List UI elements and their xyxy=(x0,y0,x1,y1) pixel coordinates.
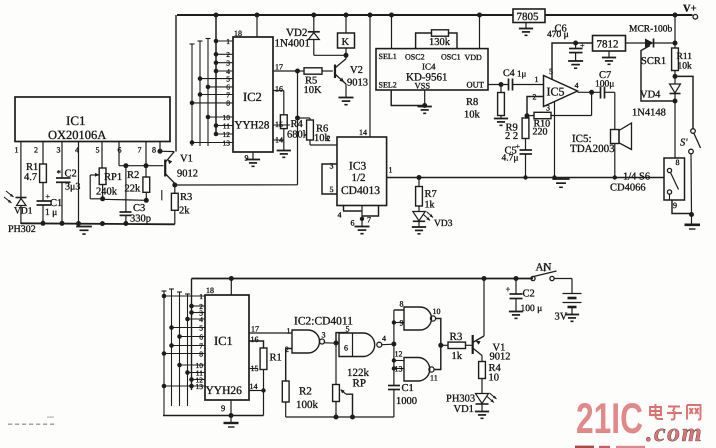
ground VD1 bottom xyxy=(475,412,489,419)
watermark dianziwang xyxy=(650,404,701,420)
wire rail junction dots xyxy=(214,13,678,18)
svg-text:18: 18 xyxy=(206,286,214,295)
svg-text:7805: 7805 xyxy=(517,11,540,23)
svg-text:R2: R2 xyxy=(299,386,312,398)
svg-text:3: 3 xyxy=(330,162,334,171)
op-amp IC4 KD-9561 xyxy=(376,49,488,91)
wire gate outputs to R3 xyxy=(434,319,443,370)
resistor R11 10k xyxy=(672,43,693,79)
resistor R7 1k xyxy=(416,178,437,212)
op-amp IC3 CD4013 xyxy=(337,137,387,206)
op-amp IC2 YYH28 xyxy=(233,37,273,152)
wire gate A pin2 xyxy=(286,349,292,382)
gate B CD4011 xyxy=(339,325,386,357)
svg-text:1N4001: 1N4001 xyxy=(275,38,310,50)
svg-text:1: 1 xyxy=(199,292,203,301)
svg-text:11: 11 xyxy=(430,374,438,383)
svg-text:SEL1: SEL1 xyxy=(379,52,397,61)
svg-text:8: 8 xyxy=(199,349,203,358)
svg-text:R4: R4 xyxy=(291,119,304,130)
terminal V+ xyxy=(683,4,698,20)
wire IC5 pin3 ground xyxy=(554,102,556,178)
svg-text:R11: R11 xyxy=(677,52,693,62)
svg-text:PH303: PH303 xyxy=(446,394,475,405)
pin labels IC1 1-8 xyxy=(15,146,157,155)
wire bus line A xyxy=(190,44,195,146)
resistor R1 (bottom) xyxy=(249,341,282,416)
svg-text:IC1: IC1 xyxy=(66,113,86,128)
svg-text:100 μ: 100 μ xyxy=(521,304,543,314)
resistor R4 680k xyxy=(273,91,309,151)
svg-text:+: + xyxy=(506,284,511,294)
svg-text:IC5: IC5 xyxy=(547,85,565,99)
svg-text:VSS: VSS xyxy=(415,81,431,91)
led VD1 PH303 xyxy=(446,393,497,415)
capacitor C4 1u xyxy=(503,68,544,91)
regulator 7805 xyxy=(513,9,545,29)
svg-text:K: K xyxy=(342,37,350,48)
svg-text:10: 10 xyxy=(433,307,441,316)
capacitor C1 1u xyxy=(37,183,63,223)
gate C CD4011 xyxy=(400,300,441,331)
wire bus2 line E (V+) xyxy=(191,279,193,391)
svg-text:22k: 22k xyxy=(125,184,142,195)
svg-text:8: 8 xyxy=(676,158,680,167)
svg-text:3: 3 xyxy=(546,104,550,113)
gate A CD4011 xyxy=(285,327,326,355)
pin label IC3 1 xyxy=(389,166,393,175)
wire bus line B xyxy=(198,41,203,146)
svg-text:2 2: 2 2 xyxy=(505,131,518,142)
ground 7812 xyxy=(602,58,616,65)
relay K xyxy=(338,15,355,58)
thyristor SCR1 MCR-100b xyxy=(629,25,675,102)
ground C6 xyxy=(568,61,583,68)
svg-text:6: 6 xyxy=(351,219,355,228)
svg-text:+: + xyxy=(580,41,585,50)
wire gate B out xyxy=(382,342,397,347)
op-amp IC1 OX20106A xyxy=(15,97,170,142)
svg-text:1: 1 xyxy=(535,75,539,84)
resistor R2 22k xyxy=(125,142,150,203)
wire bus2 line D xyxy=(185,294,190,406)
wire IC5 output xyxy=(578,91,601,93)
svg-text:S': S' xyxy=(680,138,688,149)
wire IC3 pin14 xyxy=(359,15,370,137)
svg-text:1: 1 xyxy=(287,327,291,336)
svg-text:130k: 130k xyxy=(429,37,451,48)
svg-text:C4: C4 xyxy=(503,68,515,79)
wire bus2 line A xyxy=(162,291,167,416)
svg-text:13: 13 xyxy=(196,382,204,391)
svg-text:17: 17 xyxy=(251,325,259,334)
pushbutton AN xyxy=(531,262,572,281)
svg-text:10k: 10k xyxy=(678,62,693,72)
wire V+ to SCR cathode xyxy=(673,15,678,46)
wire ground dots on long rail xyxy=(523,175,617,179)
pin label bottom IC1 18 xyxy=(206,286,214,295)
svg-text:14: 14 xyxy=(250,382,258,391)
svg-text:1000: 1000 xyxy=(396,396,417,407)
diode VD2 1N4001 xyxy=(275,15,347,55)
svg-text:3V: 3V xyxy=(555,312,568,323)
pin labels IC2 left xyxy=(223,37,231,148)
op-amp IC5 TDA2003 xyxy=(533,67,616,155)
pin label IC2 17 xyxy=(275,63,283,72)
svg-text:5: 5 xyxy=(330,185,334,194)
svg-text:1: 1 xyxy=(15,146,19,155)
pin label IC3 2 xyxy=(327,134,331,143)
logic text IC2:CD4011 xyxy=(294,316,353,328)
wire IC4 OUT xyxy=(488,82,509,87)
watermark .com xyxy=(646,418,703,447)
wire bottom IC1 input pin stubs xyxy=(162,294,205,389)
svg-text:1/4 S6: 1/4 S6 xyxy=(623,172,650,183)
svg-text:VD1: VD1 xyxy=(14,207,33,217)
wire +V supply rail (top) xyxy=(177,14,693,16)
svg-text:SCR1: SCR1 xyxy=(641,56,666,67)
transistor V1 9012 xyxy=(158,142,199,188)
svg-text:1/2: 1/2 xyxy=(352,172,366,184)
svg-text:4: 4 xyxy=(338,211,342,220)
wire RP1 bottom to R2 bottom xyxy=(103,190,162,200)
capacitor C1 1000 (bottom) xyxy=(388,369,417,418)
pin label IC2 18 xyxy=(234,29,242,38)
svg-text:9: 9 xyxy=(221,403,225,413)
resistor R4 10 xyxy=(479,362,502,394)
pin labels bottom IC1 right xyxy=(221,325,259,414)
svg-text:1 μ: 1 μ xyxy=(45,208,57,218)
op-amp IC1 YYH26 (bottom) xyxy=(205,295,249,400)
svg-text:8: 8 xyxy=(152,146,156,155)
wire gate C D input bus xyxy=(392,310,404,371)
svg-text:10k: 10k xyxy=(464,110,481,121)
wire IC4 VDD to rail xyxy=(479,15,481,49)
svg-text:4: 4 xyxy=(575,81,579,90)
svg-text:17: 17 xyxy=(275,63,283,72)
wire battery supply rail (bottom) xyxy=(192,276,534,281)
resistor R3 1k (bottom) xyxy=(441,331,472,362)
ground V2 emitter xyxy=(339,98,354,105)
svg-text:RP1: RP1 xyxy=(104,172,122,183)
svg-text:AN: AN xyxy=(536,262,552,274)
resistor R1 4.7 xyxy=(24,142,46,184)
ground battery xyxy=(565,315,579,322)
capacitor C6 470u xyxy=(547,24,585,62)
svg-text:C2: C2 xyxy=(65,169,77,180)
svg-text:9013: 9013 xyxy=(347,78,368,89)
wire IC5 pin5 supply xyxy=(552,41,593,80)
svg-text:CD4066: CD4066 xyxy=(610,183,646,194)
svg-text:21IC: 21IC xyxy=(576,395,643,443)
svg-text:9: 9 xyxy=(400,319,404,328)
svg-text:.com: .com xyxy=(646,418,703,447)
svg-text:VD4: VD4 xyxy=(640,90,661,101)
wire bottom IC1 pin17 to gate xyxy=(249,332,292,334)
resistor R9 22 xyxy=(505,116,529,142)
svg-text:6: 6 xyxy=(344,344,348,353)
svg-text:3: 3 xyxy=(57,146,61,155)
svg-text:9: 9 xyxy=(245,154,249,163)
svg-text:2: 2 xyxy=(34,146,38,155)
svg-text:OSC2: OSC2 xyxy=(405,53,425,62)
wire bus line D (V+) xyxy=(215,15,217,136)
wire gate A out xyxy=(325,341,340,346)
svg-text:9: 9 xyxy=(673,201,677,210)
svg-text:1μ: 1μ xyxy=(517,69,527,79)
switch S' xyxy=(675,76,701,215)
wire IC4 SEL1 to rail xyxy=(391,15,393,49)
ground VD3 xyxy=(412,227,426,234)
wire gate A out to gate B pin5 loop xyxy=(336,333,347,343)
ground IC2 pin9 xyxy=(245,152,261,166)
wire bottom ground rail xyxy=(163,413,264,418)
svg-text:3: 3 xyxy=(322,331,326,340)
svg-text:PH302: PH302 xyxy=(8,224,36,235)
svg-text:330p: 330p xyxy=(130,214,151,225)
capacitor C2 100u (bottom) xyxy=(506,279,543,315)
svg-text:1k: 1k xyxy=(452,351,463,362)
svg-text:8: 8 xyxy=(400,300,404,309)
svg-text:100μ: 100μ xyxy=(595,79,614,89)
svg-text:IC2:CD4011: IC2:CD4011 xyxy=(294,316,353,328)
svg-text:IC1: IC1 xyxy=(214,334,233,348)
svg-text:2k: 2k xyxy=(179,206,190,217)
wire bottom IC1 pin15 stub xyxy=(249,368,258,370)
wire IC3 pins 4 6 7 xyxy=(338,206,379,228)
watermark bottom edge marks xyxy=(575,446,645,448)
svg-text:10: 10 xyxy=(489,373,500,384)
ground C2 bottom xyxy=(509,312,523,319)
transistor V1 9012 (bottom) xyxy=(473,279,511,363)
svg-text:18: 18 xyxy=(234,29,242,38)
battery 3V xyxy=(555,279,582,323)
svg-text:C3: C3 xyxy=(133,203,145,214)
wire bottom RC rail xyxy=(286,415,394,420)
ground R8 xyxy=(494,119,508,126)
svg-text:*: * xyxy=(57,168,62,178)
resistor R10 220 xyxy=(527,90,594,138)
pin label IC2 14 xyxy=(273,136,284,145)
svg-text:9012: 9012 xyxy=(177,169,198,180)
svg-text:2: 2 xyxy=(327,134,331,143)
wire IC1 pin1 xyxy=(20,142,22,198)
wire bus line C xyxy=(206,39,211,147)
svg-text:R3: R3 xyxy=(180,192,192,203)
ground bottom IC1 xyxy=(224,416,239,428)
svg-text:IC3: IC3 xyxy=(349,161,367,173)
svg-text:V+: V+ xyxy=(683,4,697,15)
wire bottom IC1 pin9 xyxy=(230,400,232,416)
svg-text:16: 16 xyxy=(275,85,283,94)
svg-text:100k: 100k xyxy=(296,399,319,411)
svg-text:R3: R3 xyxy=(450,331,463,343)
wire bottom IC1 pin14 xyxy=(249,388,266,392)
wire IC2 pin18 xyxy=(256,15,258,37)
resistor R3 2k xyxy=(171,185,192,224)
svg-text:VD3: VD3 xyxy=(434,219,453,229)
svg-text:470 μ: 470 μ xyxy=(547,30,569,40)
regulator 7812 xyxy=(593,36,646,58)
svg-text:7812: 7812 xyxy=(597,39,619,51)
resistor R2 100k (bottom) xyxy=(282,381,318,417)
svg-text:13: 13 xyxy=(395,365,403,374)
svg-text:YYH28: YYH28 xyxy=(235,120,270,132)
ground R4 xyxy=(277,151,291,158)
wire V1 collector to IC2 pin17 node xyxy=(175,71,298,185)
svg-text:9012: 9012 xyxy=(490,352,511,363)
svg-text:4.7: 4.7 xyxy=(24,172,37,183)
svg-text:5: 5 xyxy=(96,146,100,155)
wire IC5 pin2 feedback xyxy=(525,97,544,119)
svg-text:4.7μ: 4.7μ xyxy=(502,154,519,164)
ground 7805 xyxy=(519,29,533,36)
wire bottom IC1 pin18 xyxy=(230,279,232,296)
svg-text:14: 14 xyxy=(359,128,367,137)
svg-text:5: 5 xyxy=(199,323,203,332)
svg-text:TDA2003: TDA2003 xyxy=(570,143,615,155)
diode VD4 1N4148 xyxy=(632,76,681,118)
svg-text:4: 4 xyxy=(382,334,386,343)
svg-text:V1: V1 xyxy=(180,154,193,165)
svg-text:IC4: IC4 xyxy=(422,62,436,72)
svg-text:1N4148: 1N4148 xyxy=(632,108,666,119)
svg-text:OX20106A: OX20106A xyxy=(48,128,106,142)
analog switch S6 CD4066 xyxy=(610,158,685,210)
pin labels bottom IC1 left xyxy=(196,292,204,391)
wire ground rail under IC1 xyxy=(21,221,175,226)
svg-text:VD1: VD1 xyxy=(454,404,474,415)
wire IC1 pin4 to ground rail xyxy=(78,142,80,224)
svg-text:7: 7 xyxy=(367,216,371,225)
svg-text:V2: V2 xyxy=(350,65,363,76)
svg-text:6: 6 xyxy=(199,332,203,341)
potentiometer RP1 240k xyxy=(90,142,122,202)
gate D CD4011 xyxy=(395,350,438,383)
potentiometer RP 122k xyxy=(333,343,370,417)
svg-text:C2: C2 xyxy=(523,289,535,300)
wire IC1 pin6 to V1 base node xyxy=(119,142,164,166)
svg-text:VDD: VDD xyxy=(465,53,483,62)
wire S6 pin9 to ground xyxy=(672,200,700,229)
capacitor C5 4.7u xyxy=(502,139,533,178)
svg-text:12: 12 xyxy=(395,350,403,359)
resistor R6 10k xyxy=(295,116,337,146)
led VD3 xyxy=(413,212,453,230)
svg-text:240k: 240k xyxy=(96,187,118,198)
svg-text:R7: R7 xyxy=(425,189,437,200)
wire IC3 pin1 long wire xyxy=(387,175,664,180)
ground IC3 xyxy=(355,227,370,234)
wire IC2 input pin stubs xyxy=(190,39,233,145)
svg-text:SEL2: SEL2 xyxy=(379,81,397,90)
pin label IC2 16 xyxy=(275,85,283,94)
svg-text:220: 220 xyxy=(533,127,548,138)
svg-text:MCR-100b: MCR-100b xyxy=(629,25,673,35)
svg-text:1: 1 xyxy=(389,166,393,175)
photodiode VD1 PH302 xyxy=(4,191,36,235)
wire IC3 pin3-pin5 loop xyxy=(322,162,337,195)
wire bus2 line C xyxy=(177,292,182,406)
speaker xyxy=(611,92,632,177)
svg-text:IC2: IC2 xyxy=(243,90,262,104)
svg-text:OSC1: OSC1 xyxy=(441,53,461,62)
ground under IC1 rail xyxy=(76,227,92,235)
svg-text:16: 16 xyxy=(251,335,259,344)
capacitor C2 3u3 xyxy=(56,142,80,223)
capacitor C3 330p xyxy=(120,163,152,226)
svg-text:OUT: OUT xyxy=(467,80,485,90)
wire bus2 line B xyxy=(169,289,174,406)
ground IC5 rail xyxy=(552,178,569,188)
watermark 21IC xyxy=(576,395,643,443)
ground IC4 VSS xyxy=(418,107,432,114)
pin label IC2 15 xyxy=(273,120,290,129)
wire VD4 to S6 pin8 xyxy=(674,101,676,158)
svg-text:R8: R8 xyxy=(466,97,478,108)
svg-text:1k: 1k xyxy=(425,200,435,211)
svg-text:7: 7 xyxy=(138,146,142,155)
capacitor C7 100u xyxy=(595,70,615,99)
scan dashes bottom-left xyxy=(8,417,54,425)
wire V+ to V1 emitter xyxy=(175,15,177,152)
svg-text:RP: RP xyxy=(353,378,366,390)
resistor R5 10K xyxy=(298,68,333,96)
svg-text:CD4013: CD4013 xyxy=(341,185,380,197)
svg-text:R1: R1 xyxy=(270,353,282,364)
resistor 130k xyxy=(416,30,457,49)
svg-text:R2: R2 xyxy=(127,170,139,181)
svg-text:10K: 10K xyxy=(304,85,323,96)
resistor R8 10k xyxy=(464,85,504,121)
wire IC4 SEL2 VSS ground xyxy=(391,90,427,108)
svg-text:680k: 680k xyxy=(287,130,309,141)
svg-text:C1: C1 xyxy=(402,383,414,394)
wire IC2 pin17 xyxy=(273,69,300,74)
svg-text:YYH26: YYH26 xyxy=(206,385,243,397)
transistor V2 9013 xyxy=(335,55,368,97)
